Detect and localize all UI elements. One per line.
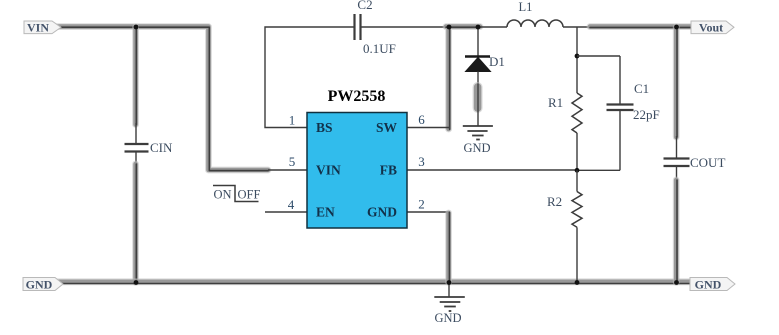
- svg-text:GND: GND: [463, 141, 490, 155]
- svg-text:EN: EN: [316, 205, 335, 220]
- wire R1 bottom: [576, 133, 578, 170]
- svg-text:VIN: VIN: [27, 21, 49, 35]
- wire pin5 thin segment: [268, 169, 307, 171]
- svg-text:SW: SW: [376, 120, 398, 135]
- node GND/R2 junction: [575, 280, 580, 285]
- wire R1 top vertical: [576, 27, 578, 93]
- svg-text:L1: L1: [519, 0, 533, 14]
- ground bottom center: [434, 283, 465, 312]
- capacitor COUT: [664, 159, 690, 167]
- wire D1 to ground thin: [477, 111, 479, 126]
- ground under D1: [463, 126, 493, 140]
- svg-text:OFF: OFF: [238, 188, 261, 202]
- svg-text:GND: GND: [434, 311, 461, 325]
- wire BS loop with C2: [265, 27, 446, 128]
- svg-text:2: 2: [418, 197, 425, 212]
- wire VIN net (thick) : tag to corner, down, to pin5: [57, 27, 268, 171]
- wire FB from pin3: [407, 169, 577, 171]
- resistor R2: [572, 192, 582, 228]
- svg-text:GND: GND: [695, 278, 722, 292]
- wire CIN upper thin lead: [135, 123, 137, 143]
- resistor R1: [572, 93, 582, 133]
- wire top rail thin segments: [480, 26, 592, 28]
- node Vout/COUT junction: [674, 25, 679, 30]
- svg-text:D1: D1: [489, 54, 505, 69]
- svg-text:GND: GND: [26, 278, 53, 292]
- wire CIN lower (thick): [132, 164, 139, 283]
- svg-text:CIN: CIN: [150, 140, 173, 155]
- node GND/COUT junction: [674, 280, 679, 285]
- wire R2 bottom: [576, 227, 578, 283]
- capacitor CIN: [125, 144, 149, 152]
- port tag GND right: [690, 278, 735, 292]
- inductor L1: [507, 20, 563, 27]
- port tag GND left: [23, 278, 63, 292]
- svg-text:C2: C2: [357, 0, 372, 12]
- svg-text:FB: FB: [380, 163, 397, 178]
- wire CIN lower thin lead: [135, 153, 137, 166]
- node GND/pin2 junction: [447, 280, 452, 285]
- wire COUT lower thin lead: [676, 167, 678, 181]
- wire GND rail (thick): [57, 282, 691, 284]
- svg-text:R1: R1: [548, 95, 563, 110]
- capacitor C2: [355, 14, 361, 40]
- wire pin2 GND stub thin: [407, 211, 449, 213]
- wire pin6 stub thin: [407, 127, 449, 129]
- svg-text:1: 1: [289, 113, 296, 128]
- capacitor C1: [607, 56, 634, 170]
- diode D1: [465, 27, 491, 86]
- node R1/C1 top junction: [575, 54, 580, 59]
- wire SW net (thick): pin6 vertical and rail segment: [446, 27, 480, 130]
- svg-text:6: 6: [418, 112, 425, 127]
- wire R2 top: [576, 170, 578, 191]
- svg-text:COUT: COUT: [690, 155, 725, 170]
- svg-text:BS: BS: [316, 120, 333, 135]
- IC U1 PW2558: [307, 88, 407, 228]
- svg-text:R2: R2: [547, 194, 562, 209]
- wire D1 anode capsule (thick): [473, 84, 483, 111]
- svg-text:4: 4: [288, 197, 295, 212]
- ON/OFF switch symbol: [213, 186, 260, 202]
- node SW/D1 junction: [476, 25, 481, 30]
- svg-text:C1: C1: [634, 81, 649, 96]
- wire Vout net (thick): [590, 23, 691, 31]
- node FB/R1/R2/C1 junction: [575, 168, 580, 173]
- svg-text:Vout: Vout: [699, 21, 723, 35]
- node SW/C2 junction: [447, 25, 452, 30]
- wire COUT upper (thick): [673, 27, 681, 137]
- node VIN/CIN junction: [134, 25, 139, 30]
- port tag VIN: [24, 21, 61, 35]
- svg-text:GND: GND: [367, 205, 397, 220]
- svg-text:VIN: VIN: [316, 163, 341, 178]
- wire COUT lower (thick): [673, 180, 681, 283]
- svg-text:5: 5: [289, 154, 296, 169]
- port tag Vout: [691, 21, 734, 35]
- svg-text:3: 3: [418, 154, 425, 169]
- wire pin2 GND vertical (thick): [445, 212, 453, 283]
- node GND/CIN junction: [134, 280, 139, 285]
- wire COUT upper thin lead: [676, 136, 678, 158]
- wire C1 top horizontal: [577, 55, 620, 57]
- wire EN from ON/OFF: [265, 211, 307, 213]
- svg-text:0.1UF: 0.1UF: [363, 41, 396, 56]
- wire CIN upper (thick): [132, 27, 139, 125]
- svg-text:ON: ON: [214, 188, 232, 202]
- wire C1 bottom horizontal: [577, 169, 620, 171]
- svg-text:PW2558: PW2558: [328, 88, 386, 105]
- svg-text:22pF: 22pF: [633, 107, 660, 122]
